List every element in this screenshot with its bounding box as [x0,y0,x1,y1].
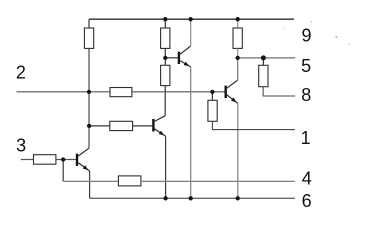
wire pin2 node down into R8 [211,92,213,100]
wire pin 5 line [238,57,296,59]
node junction dot pin5/R7 [261,55,266,60]
transistor Q1 base bar [178,52,180,64]
transistor Q3 base bar [224,86,226,98]
svg-text:5: 5 [301,56,311,76]
transistor Q1 collector diagonal [180,46,191,54]
transistor Q3 emitter diagonal [227,95,238,103]
wire R9 to Q4 base [56,159,76,161]
wire Q3 emitter vertical down to pin6 rail [237,103,239,198]
svg-text:8: 8 [301,85,311,105]
faint speck [311,21,313,23]
resistor R6 (rail to pin5 node) [233,28,242,48]
node junction dot B (R2/R3/Q1 base) [163,56,167,60]
node junction dot C (pin3/Q4 base/pin4 branch) [61,157,65,161]
wire Q2 emitter vertical down to pin6 rail [165,136,167,198]
wire left column R1 bottom down to Q4 collector [88,48,90,148]
wire Q3 collector vertical up to pin5 node [237,58,239,80]
faint speck [335,36,337,38]
transistor Q1 emitter diagonal [180,61,191,67]
resistor R8 (Q3 base node to pin 1) [208,100,217,121]
transistor Q2 collector up to R3 [155,116,166,122]
faint speck [283,28,285,30]
transistor Q4 emitter diagonal [78,163,90,171]
node junction dot pin6/Q3 emitter [236,196,240,200]
wire rail stub to R2 [164,19,166,28]
wire R6 bottom to pin5 node [237,48,239,58]
transistor Q2 emitter arrow [159,131,165,136]
wire top supply rail (pin 9 net) [89,18,294,20]
wire R3 bottom down to Q2 collector elbow [164,86,166,116]
wire pin 4 line left segment [63,180,118,182]
wire pin 6 rail [90,197,295,199]
wire pin 2 line left segment [17,91,111,93]
node junction dot pin2/R8/Q3 base [210,90,214,94]
wire pin5 node down into R7 [262,58,264,65]
wire pin 3 line [21,159,34,161]
wire Q4 emitter vertical down to pin6 rail corner [89,171,91,198]
wire R5 to Q2 base [133,125,153,127]
node junction dot rail/R2 [163,17,167,21]
resistor R7 (pin5 node to pin 8) [259,65,268,86]
svg-text:2: 2 [16,63,26,83]
transistor Q3 collector diagonal [227,80,238,88]
node junction dot rail/Q1 collector [188,17,192,21]
node junction dot pin5/R6/Q3 collector [236,56,240,60]
transistor Q1 emitter arrow [184,62,190,67]
resistor R4 (horizontal, pin2 row) [110,88,132,97]
svg-text:9: 9 [301,26,311,46]
resistor R5 (horizontal, Q2 base row) [110,121,133,130]
transistor Q4 base bar [76,154,78,166]
wire pin 2 line right segment to Q3 base [132,91,225,93]
wire rail stub to R6 [237,19,239,28]
wire Q1 base from node B [165,57,178,59]
wire rail corner down into R1 [88,19,90,28]
transistor Q2 base bar [152,119,154,132]
node junction dot pin6/Q1 emitter [189,196,193,200]
resistor R1 [84,28,93,48]
svg-text:6: 6 [302,191,312,211]
wire R7 bottom corner to pin 8 line [263,87,295,96]
wire Q1 collector vertical up to rail [190,19,192,46]
transistor Q4 collector up into left column [78,148,89,156]
faint speck [349,44,351,46]
transistor Q2 emitter diagonal [155,129,166,137]
wire Q2 base row left segment from left column node [89,125,110,127]
node junction dot left column/R5 row [87,124,91,128]
wire node C down to pin 4 line [62,160,64,182]
resistor R3 (below node B) [161,65,170,85]
resistor R9 (horizontal, pin3 row) [34,155,56,165]
wire pin 4 line right segment [141,180,295,182]
wire R8 bottom corner to pin 1 line [212,121,295,129]
node junction dot pin6/Q2 emitter [163,196,167,200]
node junction dot rail/R6 [236,17,240,21]
resistor R2 [161,28,170,48]
svg-text:3: 3 [16,135,26,155]
transistor Q3 emitter arrow [231,97,237,102]
wire R2 bottom to node B [164,48,166,65]
svg-text:1: 1 [301,128,311,148]
wire Q1 emitter vertical down to pin6 rail [190,67,192,198]
resistor R10 (horizontal, pin4 row) [118,176,140,186]
svg-text:4: 4 [302,169,312,189]
transistor Q4 emitter arrow [83,165,89,170]
node junction dot pin2/left column [87,90,91,94]
